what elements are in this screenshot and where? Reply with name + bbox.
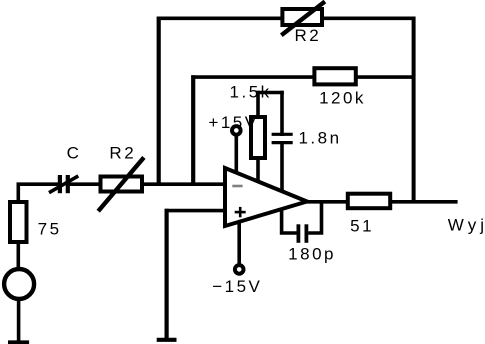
wire: 1.5k bottom lead	[256, 158, 260, 183]
wire: top feedback left vertical	[157, 17, 161, 186]
wire: feedback right vertical	[412, 17, 416, 202]
wire: +15V lead	[235, 133, 239, 176]
wire: source to ground	[17, 299, 21, 342]
svg-text:R2: R2	[295, 26, 322, 45]
wire: 120k loop horizontal	[191, 75, 413, 79]
op-amp inverting marker	[232, 185, 242, 188]
resistor 1.5k	[251, 117, 265, 158]
wire: compensation loop horizontal	[256, 91, 284, 95]
wire: 120k loop left vertical	[191, 75, 195, 186]
wire: 180p right lead	[308, 200, 321, 233]
svg-text:1.5k: 1.5k	[230, 83, 272, 102]
resistor 51	[348, 194, 390, 209]
svg-text:1.8n: 1.8n	[298, 129, 341, 148]
wire: top feedback horizontal	[157, 16, 416, 20]
wire: output from op-amp	[305, 200, 348, 204]
wire: output right segment	[390, 200, 457, 204]
terminal -15V	[235, 265, 244, 274]
capacitor 180p	[298, 224, 306, 243]
resistor 120k	[314, 68, 355, 84]
resistor 75	[10, 202, 27, 242]
wire: non-inverting input	[165, 209, 227, 213]
svg-text:180p: 180p	[288, 245, 336, 264]
resistor R2 (top feedback, variable)	[281, 2, 325, 36]
svg-text:C: C	[67, 143, 82, 162]
svg-text:R2: R2	[109, 143, 136, 162]
wire: 75 to source	[16, 240, 20, 270]
source generator	[4, 269, 34, 299]
svg-text:51: 51	[350, 217, 374, 236]
wire: 1.8n bottom lead	[280, 144, 284, 192]
svg-text:Wyj: Wyj	[448, 215, 485, 234]
op-amp U1	[225, 168, 307, 226]
svg-text:−15V: −15V	[212, 277, 262, 296]
svg-text:75: 75	[38, 219, 62, 238]
resistor R2 (input, variable)	[98, 157, 144, 211]
ground (non-inverting)	[157, 338, 177, 342]
wire: -15V lead	[237, 222, 241, 265]
wire: non-inverting ground vertical	[165, 209, 169, 340]
wire: 1.8n top lead	[280, 91, 284, 136]
wire: 180p left lead	[282, 208, 297, 233]
wire: inverting input right segment	[70, 182, 228, 186]
op-amp non-inverting marker	[235, 207, 246, 217]
svg-text:120k: 120k	[319, 89, 366, 108]
capacitor C	[49, 175, 78, 193]
terminal +15V	[232, 126, 241, 135]
wire: inverting input left segment	[18, 184, 58, 203]
wire: 1.5k top lead	[256, 91, 260, 118]
capacitor 1.8n	[272, 134, 293, 142]
ground (source)	[8, 340, 29, 344]
